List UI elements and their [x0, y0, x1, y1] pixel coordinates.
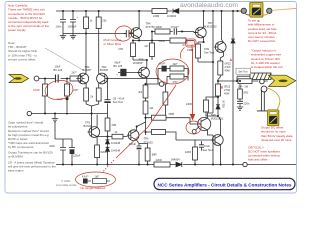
- svg-text:TR4: TR4: [146, 21, 151, 25]
- svg-text:TR5: TR5: [139, 57, 144, 61]
- resistor 27R: [131, 43, 136, 57]
- red note output offset: [261, 126, 293, 142]
- wire TR9 collector: [222, 11, 224, 42]
- wire meter probe pair: [257, 90, 267, 111]
- terminal circle TR8 base: [192, 130, 196, 134]
- resistor 0R22 first: [218, 61, 223, 75]
- svg-text:1000uF: 1000uF: [68, 25, 77, 29]
- transistor TR8 MJE15031: [198, 117, 211, 130]
- no longer required parts: resistor 2k2: [93, 179, 107, 184]
- capacitor 47uF cerafine: [124, 30, 134, 37]
- red pointer line feedback to bottom: [116, 85, 176, 158]
- ground symbol cap 100n: [60, 34, 66, 39]
- resistor R 1k rail: [84, 17, 89, 29]
- resistor 8R2 zobel: [238, 89, 243, 99]
- svg-text:See Text: See Text: [238, 71, 248, 74]
- svg-text:40W: 40W: [225, 68, 231, 72]
- capacitor 100n lower left: [60, 139, 66, 165]
- svg-text:power supply.: power supply.: [8, 28, 26, 32]
- resistor 0R22 second: [216, 84, 221, 96]
- transistor TR2 BC546: [97, 73, 109, 84]
- svg-text:2.5W: 2.5W: [225, 65, 232, 69]
- transistor TR6 ZTX653: [127, 130, 139, 141]
- wire TR1 emitter chain: [86, 83, 99, 132]
- svg-text:220uF: 220uF: [129, 142, 137, 146]
- red note milliammeter setup: [248, 19, 277, 43]
- svg-text:TR1: TR1: [85, 65, 90, 69]
- svg-text:or BUV90A: or BUV90A: [8, 155, 23, 159]
- resistor 10R 2W: [238, 79, 252, 84]
- svg-text:1N4148: 1N4148: [111, 141, 121, 145]
- wire TR5 leads: [127, 60, 147, 73]
- svg-text:Do NOT exceed this.: Do NOT exceed this.: [248, 39, 276, 43]
- svg-text:27R: 27R: [118, 47, 123, 51]
- capacitor 68uF tantalum: [120, 69, 126, 76]
- output arrow yellow: [269, 75, 296, 86]
- highlight ellipse feedback parts: [156, 59, 189, 84]
- capacitor 220n zobel: [237, 99, 243, 107]
- svg-text:47uF*: 47uF*: [159, 62, 166, 66]
- svg-text:120R: 120R: [185, 150, 191, 154]
- capacitor 1000uF supply: [70, 11, 76, 34]
- label box see text: [236, 68, 251, 74]
- svg-text:40W: 40W: [224, 91, 230, 95]
- svg-text:No longer required: No longer required: [81, 186, 106, 190]
- transistor TR3 BC546 vas: [88, 127, 100, 138]
- red highlight group: [44, 24, 201, 187]
- red note top left: [8, 4, 49, 33]
- grey note caps marked: [8, 121, 50, 150]
- svg-text:47uF*: 47uF*: [82, 175, 88, 178]
- svg-text:220R: 220R: [156, 158, 162, 162]
- svg-text:See Text: See Text: [113, 100, 123, 104]
- svg-text:BC546: BC546: [84, 124, 92, 128]
- resistor 27k feedback: [170, 74, 184, 79]
- svg-text:220uF: 220uF: [73, 154, 81, 158]
- inductor output coil: [250, 73, 271, 80]
- pointer line note to TR1: [45, 48, 83, 70]
- resistor 390R: [155, 29, 170, 34]
- wire right rail x233: [232, 11, 234, 165]
- svg-text:2.5W: 2.5W: [224, 88, 231, 92]
- wire TR7 collector: [203, 11, 205, 28]
- wire TR6 leads: [136, 127, 147, 149]
- svg-text:TR7: TR7: [208, 21, 213, 25]
- svg-text:22R: 22R: [112, 123, 117, 127]
- wire TR3 collector: [96, 115, 98, 165]
- wire ammeter leads orange: [245, 13, 250, 15]
- input arrow yellow: [9, 75, 29, 83]
- svg-text:bass region: bass region: [8, 169, 24, 173]
- highlight ellipse no longer required: [76, 172, 116, 187]
- svg-text:BC 126: BC 126: [54, 68, 63, 72]
- svg-text:68R: 68R: [152, 153, 157, 157]
- svg-text:See Text: See Text: [204, 51, 214, 55]
- component value labels: [49, 14, 250, 178]
- svg-text:MJE15030: MJE15030: [204, 25, 217, 29]
- wire output node: [237, 76, 276, 81]
- terminal circle ammeter A: [241, 8, 246, 13]
- red boxed part at TR7 base: [187, 41, 195, 45]
- diode D1 1N4004 top: [173, 9, 179, 14]
- svg-text:27k*: 27k*: [173, 80, 178, 84]
- svg-text:10uF: 10uF: [55, 65, 61, 69]
- svg-text:BY255: BY255: [221, 101, 224, 109]
- capacitor 10uF see text: [199, 141, 204, 151]
- svg-text:NCC Series Amplifiers - Circui: NCC Series Amplifiers - Circuit Details …: [158, 182, 293, 187]
- svg-text:220n: 220n: [244, 102, 250, 106]
- diode 1N4148 a: [106, 140, 110, 144]
- transistor TR5 2N3053: [137, 67, 149, 78]
- note TR1 hFE: [8, 41, 37, 61]
- svg-text:bias and offset: bias and offset: [248, 158, 268, 162]
- wire TR9 emitter: [220, 52, 223, 61]
- wire bottom negative rail: [56, 164, 296, 166]
- svg-text:240*: 240*: [73, 88, 78, 92]
- capacitor 100n supply: [60, 11, 66, 34]
- grey note brass cased: [8, 160, 56, 172]
- wire front-end filtered rail: [63, 11, 124, 74]
- svg-text:68uF: 68uF: [115, 61, 121, 65]
- red note output inductor: [251, 49, 283, 69]
- wire 0R22 to node: [218, 75, 238, 84]
- resistor 2k7 input: [70, 76, 82, 81]
- wire ground bus: [32, 113, 108, 115]
- svg-text:TR6: TR6: [144, 137, 149, 141]
- wire TR10 leads: [176, 117, 221, 165]
- resistor 560R: [170, 38, 186, 43]
- svg-text:560R: 560R: [169, 113, 175, 116]
- wire TR8 collector: [208, 113, 214, 118]
- capacitor 470pF: [174, 28, 176, 34]
- capacitor 220uF mid: [137, 146, 142, 165]
- ground symbol cap 1000uF: [70, 34, 76, 39]
- transistor TR1 BC546: [77, 73, 89, 84]
- terminal circle set-bias: [159, 82, 164, 87]
- capacitor 47uF feedback: [162, 66, 167, 72]
- svg-text:500R: 500R: [190, 45, 194, 52]
- wire TR7 emitter to trimmer: [198, 37, 204, 44]
- svg-text:0R22: 0R22: [224, 84, 231, 88]
- svg-text:560R: 560R: [159, 39, 165, 43]
- wire TR4 collector: [138, 11, 140, 28]
- svg-text:10R - 2W: 10R - 2W: [238, 86, 249, 89]
- resistor 68R: [145, 148, 150, 161]
- svg-text:0R22: 0R22: [225, 61, 232, 65]
- svg-text:390R: 390R: [156, 25, 162, 29]
- resistor 2k tail: [96, 88, 101, 101]
- border frame: [5, 2, 297, 194]
- highlight ellipse 47uF cerafine: [113, 24, 133, 43]
- svg-text:avondaleaudio.com: avondaleaudio.com: [180, 2, 238, 9]
- capacitor 220uF lower left: [69, 139, 75, 165]
- wire rail dropper x213: [212, 11, 214, 113]
- ground symbol left: [52, 114, 72, 140]
- wire second 0R22 bottom: [217, 96, 219, 117]
- resistor 100R shunt: [43, 84, 48, 96]
- resistor 22R: [105, 118, 110, 131]
- wire TR2 emitter chain: [98, 83, 100, 88]
- wire input: [39, 78, 85, 80]
- svg-text:620R: 620R: [101, 150, 107, 154]
- svg-text:1k2: 1k2: [149, 107, 154, 110]
- junction square feedback: [66, 97, 69, 100]
- title bar: [154, 178, 295, 189]
- highlight ellipse 240R: [44, 79, 74, 102]
- svg-text:2N3053*: 2N3053*: [133, 61, 143, 65]
- terminal circle meter probe: [261, 86, 267, 92]
- capacitor C8 comp: [105, 79, 111, 119]
- red note critical: [248, 145, 280, 161]
- wire TR2 base feedback: [109, 77, 167, 85]
- svg-text:2k7: 2k7: [144, 44, 149, 48]
- wire trimmer bottom: [198, 58, 213, 62]
- resistor 2k2 emitter chain: [143, 85, 148, 98]
- no longer required parts: capacitor 47uF: [83, 179, 88, 184]
- ground symbol zobel: [237, 107, 243, 110]
- svg-text:ZTX653: ZTX653: [144, 140, 154, 144]
- svg-text:10uF: 10uF: [204, 144, 210, 148]
- svg-text:100n: 100n: [56, 25, 62, 29]
- svg-text:2k2*: 2k2*: [173, 62, 178, 66]
- svg-text:observed over 20 mins.: observed over 20 mins.: [261, 138, 292, 142]
- highlight ellipse TR8 base resistor: [186, 121, 201, 134]
- multimeter lower: [268, 110, 279, 126]
- transistor TR7 MJE15030: [194, 27, 206, 38]
- svg-text:by BC components: by BC components: [8, 145, 34, 149]
- resistor 220R bottom: [154, 162, 170, 167]
- diode 1N4148 b: [106, 144, 110, 165]
- svg-text:C8 - 47uF: C8 - 47uF: [113, 97, 125, 101]
- wire top positive rail: [56, 10, 272, 12]
- resistor 2k7 second: [150, 43, 155, 57]
- resistor 2k2 feedback: [170, 66, 184, 71]
- svg-text:Avondale Audio: Avondale Audio: [56, 183, 77, 187]
- svg-text:240R: 240R: [57, 97, 64, 101]
- svg-text:BC546: BC546: [100, 68, 108, 72]
- svg-text:100R: 100R: [33, 88, 40, 92]
- highlight box TR7 base part: [186, 39, 197, 47]
- capacitor 10uF input: [56, 75, 59, 83]
- wire 130R parallel: [206, 97, 218, 116]
- resistor TR1 lower: [84, 88, 89, 101]
- resistor lower bias: [152, 130, 166, 135]
- svg-text:ZTX753: ZTX753: [146, 25, 156, 29]
- resistor trimmer 500R: [196, 44, 201, 58]
- resistor 240 tail: [65, 84, 70, 96]
- resistor 620R: [95, 145, 100, 158]
- svg-text:BC546*: BC546*: [83, 68, 92, 72]
- red note 47uF cerafine: [103, 38, 122, 46]
- resistor 220R top: [152, 9, 167, 14]
- terminal circle input: [27, 111, 31, 115]
- resistor 1k bias: [112, 134, 123, 139]
- terminal circle bottom rail: [243, 162, 247, 166]
- resistor feedback lower 560R: [163, 92, 168, 105]
- transistor TR10 output lower: [211, 135, 223, 146]
- svg-text:2k7*: 2k7*: [72, 70, 77, 74]
- resistor 130R: [204, 100, 209, 112]
- copyright: [56, 179, 77, 187]
- svg-text:100n: 100n: [49, 144, 55, 148]
- svg-text:1N4004: 1N4004: [171, 157, 181, 161]
- svg-text:1N4148: 1N4148: [111, 149, 121, 153]
- svg-text:220R: 220R: [153, 14, 159, 18]
- svg-text:130R: 130R: [186, 102, 192, 106]
- svg-text:470pF*: 470pF*: [171, 25, 179, 29]
- diode thermal x233: [231, 36, 235, 46]
- svg-text:MJE15031: MJE15031: [211, 117, 224, 121]
- diode 1N4004 bottom: [176, 162, 182, 167]
- svg-text:TR3: TR3: [85, 120, 90, 124]
- wire TR4 emitter bus: [133, 38, 194, 41]
- svg-text:22k: 22k: [102, 19, 107, 23]
- svg-text:or Silver Mica: or Silver Mica: [104, 42, 122, 46]
- grey note output transistors: [8, 151, 53, 159]
- wire 390R row: [152, 32, 198, 41]
- svg-text:ensure correct offset: ensure correct offset: [8, 57, 35, 61]
- svg-text:2k2: 2k2: [138, 91, 143, 94]
- resistor R 22k rail: [96, 17, 101, 29]
- terminal circle output: [260, 79, 265, 84]
- svg-text:TR2: TR2: [102, 65, 107, 69]
- diode BY255: [216, 100, 220, 112]
- svg-text:BC 128: BC 128: [114, 64, 123, 68]
- red arrow head: [190, 114, 196, 121]
- svg-text:8R2: 8R2: [244, 91, 249, 95]
- red arrow pointer: [192, 49, 194, 115]
- resistor 120R: [193, 147, 198, 160]
- svg-text:TR9: TR9: [204, 47, 209, 51]
- wire voltmeter lead olive: [267, 88, 280, 110]
- resistor 1k2 chain: [143, 101, 148, 114]
- svg-text:TR8: TR8: [211, 113, 216, 117]
- red squiggle link to ellipse: [180, 48, 184, 59]
- resistor TR8 base upper: [152, 115, 167, 120]
- transistor TR4 ZTX753: [130, 28, 142, 39]
- svg-text:2k2*: 2k2*: [95, 175, 100, 178]
- wire TR8 emitter: [208, 130, 214, 165]
- svg-text:is located within the coil: is located within the coil: [251, 65, 283, 69]
- multimeter top: [250, 2, 263, 17]
- transistor TR9 output: [214, 42, 226, 53]
- svg-text:1N4004: 1N4004: [167, 14, 177, 18]
- terminal circle ammeter B: [267, 8, 272, 13]
- svg-text:See Text: See Text: [203, 148, 213, 152]
